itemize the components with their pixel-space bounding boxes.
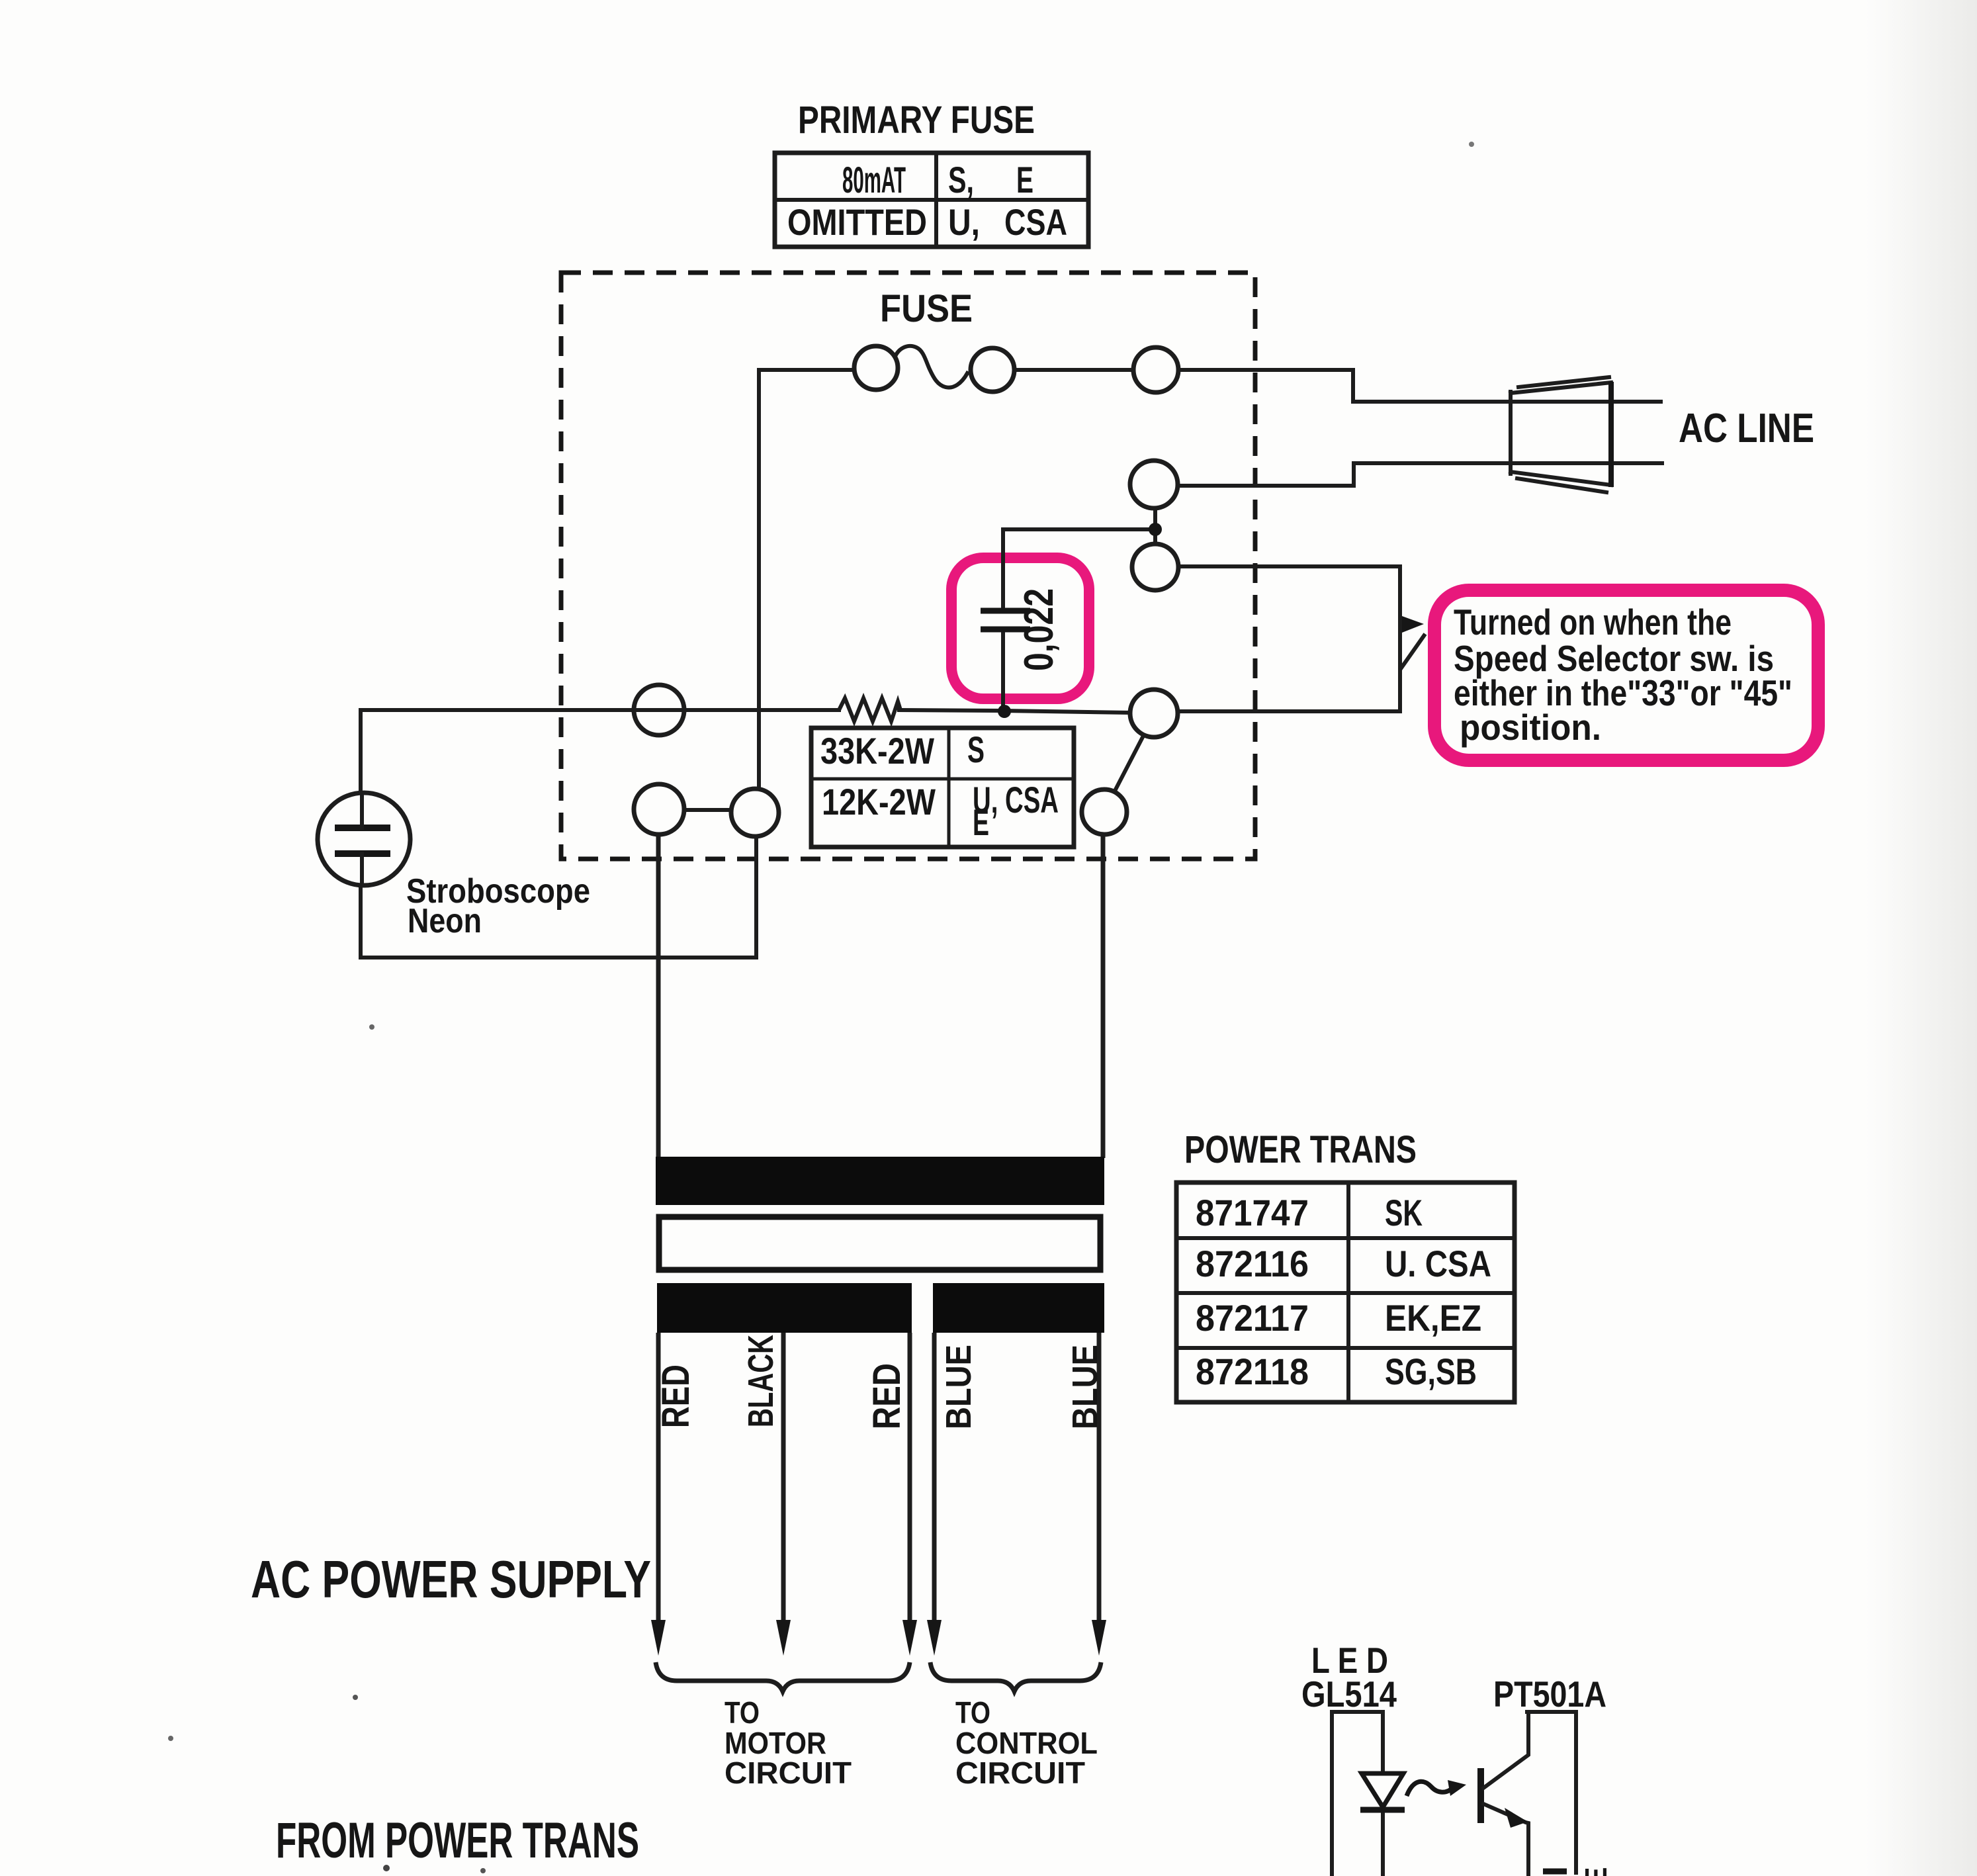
fuse terminal circle 2 [971, 348, 1014, 392]
wire switch S1 to AC plug lower [1178, 463, 1662, 486]
svg-text:80mAT: 80mAT [842, 159, 906, 201]
switch terminal S4 [1130, 690, 1178, 737]
svg-text:BLUE: BLUE [939, 1345, 979, 1429]
speck dots [1469, 142, 1474, 147]
resistor value table [811, 728, 1074, 847]
svg-text:TO: TO [955, 1695, 990, 1730]
svg-text:12K-2W: 12K-2W [822, 781, 936, 823]
svg-text:S: S [967, 729, 985, 770]
svg-text:RED: RED [654, 1364, 697, 1428]
svg-text:PT501A: PT501A [1493, 1674, 1606, 1715]
optocoupler squiggle arrowhead [1448, 1780, 1466, 1796]
LED GL514 leads [1332, 1712, 1383, 1876]
LED cathode bar [1360, 1807, 1405, 1813]
arrowhead BLUE2 [1092, 1620, 1106, 1656]
svg-text:871747: 871747 [1196, 1192, 1309, 1233]
note pointer diagonal [1400, 634, 1425, 670]
wire main horizontal through L1 to resistor [361, 708, 839, 712]
power trans table [1176, 1183, 1515, 1402]
svg-text:POWER TRANS: POWER TRANS [1184, 1128, 1417, 1171]
switch terminal S2 [1132, 544, 1178, 590]
switch terminal L2 [634, 784, 684, 834]
svg-text:PRIMARY FUSE: PRIMARY FUSE [798, 99, 1035, 142]
arrowhead RED [651, 1620, 666, 1656]
wire S5 down to transformer primary [1101, 834, 1106, 1158]
svg-text:BLUE: BLUE [1065, 1345, 1105, 1429]
svg-text:RED: RED [865, 1363, 908, 1429]
wire fuse left lead and long vertical to L3 [759, 370, 854, 789]
svg-text:position.: position. [1460, 707, 1601, 748]
capacitor 0.022 plates [981, 611, 1030, 629]
junction dot capacitor top node [1149, 523, 1162, 536]
wire secondary lead BLUE1 [932, 1333, 937, 1623]
junction dot capacitor bottom node [998, 705, 1011, 718]
svg-text:Turned on when the: Turned on when the [1454, 602, 1732, 643]
svg-text:872117: 872117 [1196, 1297, 1309, 1339]
resistor zigzag [839, 698, 901, 721]
svg-text:0,022: 0,022 [1016, 588, 1062, 671]
wire fuse terminal to AC plug upper [1178, 370, 1661, 402]
wire L2 down to transformer primary [656, 834, 661, 1158]
stroboscope neon lamp [318, 793, 410, 885]
svg-text:33K-2W: 33K-2W [820, 730, 934, 772]
svg-text:872116: 872116 [1196, 1243, 1309, 1284]
wire capacitor top branch [1003, 529, 1154, 608]
svg-text:SK: SK [1385, 1192, 1423, 1233]
transformer secondary winding right [933, 1283, 1104, 1333]
svg-text:BLACK: BLACK [741, 1335, 781, 1427]
AC plug body [1511, 377, 1611, 492]
phototransistor PT501A base bar [1477, 1768, 1484, 1823]
fuse terminal circle 1 [854, 346, 898, 390]
svg-text:GL514: GL514 [1301, 1674, 1397, 1715]
svg-text:CIRCUIT: CIRCUIT [955, 1756, 1085, 1790]
fuse element wavy link [894, 346, 967, 388]
wire L2-L3 connector [684, 808, 731, 812]
switch terminal L1 [634, 685, 684, 735]
fuse terminal circle 3 [1133, 347, 1178, 392]
pink highlight around capacitor [951, 558, 1089, 699]
arrowhead RED2 [902, 1620, 917, 1656]
svg-text:FROM POWER TRANS: FROM POWER TRANS [276, 1812, 639, 1869]
wire capacitor bottom lead [1001, 632, 1005, 711]
svg-text:AC LINE: AC LINE [1679, 406, 1814, 451]
svg-text:OMITTED: OMITTED [787, 201, 927, 243]
svg-text:SG,SB: SG,SB [1385, 1351, 1477, 1392]
svg-text:E: E [973, 801, 989, 843]
svg-text:AC POWER SUPPLY: AC POWER SUPPLY [251, 1550, 651, 1609]
note pointer arrowhead [1402, 616, 1424, 633]
svg-text:U. CSA: U. CSA [1385, 1243, 1491, 1284]
wire stroboscope top lead [359, 710, 363, 828]
wire secondary lead RED2 [908, 1333, 912, 1623]
transformer core [659, 1217, 1100, 1270]
arrowhead BLUE1 [927, 1620, 942, 1656]
dashed switch-unit boundary box [561, 273, 1255, 859]
phototransistor emitter [1483, 1804, 1528, 1876]
svg-text:EK,EZ: EK,EZ [1385, 1297, 1481, 1339]
switch terminal L3 [731, 789, 779, 836]
svg-text:E: E [1016, 159, 1033, 201]
svg-text:E: E [1579, 1867, 1613, 1876]
pink note callout box [1434, 590, 1818, 760]
svg-text:FUSE: FUSE [880, 287, 973, 330]
wire secondary lead BLACK [781, 1333, 786, 1623]
emitter tick mark [1543, 1869, 1567, 1875]
wire resistor to S4 [899, 710, 1129, 713]
wire switch arm S4-S5 diagonal [1114, 736, 1143, 792]
transformer secondary winding left [657, 1283, 912, 1333]
svg-text:CIRCUIT: CIRCUIT [725, 1756, 852, 1790]
wire secondary lead BLUE2 [1097, 1333, 1102, 1623]
brace to motor circuit [656, 1662, 910, 1691]
brace to control circuit [930, 1662, 1101, 1691]
svg-text:CSA: CSA [1004, 201, 1067, 243]
primary fuse table [775, 153, 1088, 247]
wire S1-S2 junction vertical [1153, 508, 1157, 544]
svg-text:U,: U, [948, 201, 980, 243]
arrowhead BLACK [776, 1620, 791, 1656]
switch terminal S1 [1130, 461, 1178, 508]
svg-text:S,: S, [948, 159, 974, 201]
wire secondary lead RED [656, 1333, 661, 1623]
optocoupler light squiggle [1407, 1781, 1454, 1796]
wire between fuse and terminal [1014, 368, 1133, 372]
svg-text:Neon: Neon [408, 902, 482, 940]
transformer primary winding bar [656, 1157, 1104, 1205]
svg-text:TO: TO [725, 1695, 760, 1730]
svg-text:872118: 872118 [1196, 1351, 1309, 1392]
switch terminal S5 [1082, 789, 1127, 834]
wire switch S2 loop right and back to S4 [1178, 566, 1400, 711]
LED diode triangle [1362, 1773, 1403, 1807]
wire stroboscope bottom lead to L3 [361, 836, 756, 958]
phototransistor emitter arrowhead [1505, 1808, 1528, 1828]
phototransistor collector [1483, 1712, 1576, 1873]
